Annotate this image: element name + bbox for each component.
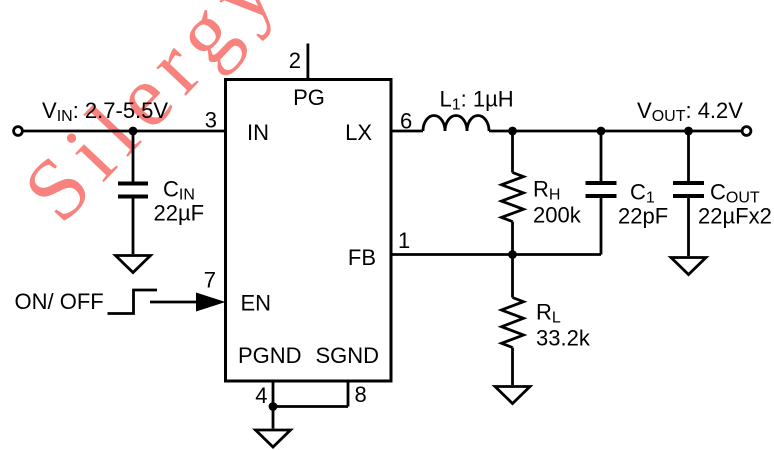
svg-text:22pF: 22pF	[618, 204, 668, 229]
wire: RH to FB node	[511, 222, 514, 255]
wire: FB pin to C1 bottom	[391, 253, 601, 256]
svg-text:IN: IN	[247, 120, 269, 145]
wire: EN arrow shaft	[150, 301, 200, 304]
signal: step waveform	[108, 290, 158, 314]
svg-text:SGND: SGND	[316, 343, 380, 368]
wire: input to IN pin	[22, 130, 225, 133]
node: FB junction dot	[508, 250, 517, 259]
wire: C1 bottom leg	[600, 198, 603, 255]
arrowhead into EN	[196, 293, 226, 312]
svg-text:LX: LX	[345, 120, 372, 145]
svg-text:EN: EN	[241, 291, 272, 316]
wire: SGND pin 8 stub	[347, 381, 350, 407]
svg-text:8: 8	[355, 382, 367, 407]
wire: junction to ground	[272, 407, 275, 429]
node: C1 top junction dot	[597, 127, 606, 136]
svg-text:2: 2	[289, 48, 301, 73]
wire: FB node down to RL	[511, 255, 514, 298]
wire: COUT to ground	[687, 198, 690, 256]
node: COUT top junction dot	[684, 127, 693, 136]
wire: PG pin stub	[306, 44, 309, 80]
inductor L1	[423, 115, 489, 131]
svg-text:4: 4	[255, 383, 267, 408]
wire: LX to inductor	[391, 130, 423, 133]
capacitor COUT	[673, 181, 704, 185]
svg-text:200k: 200k	[533, 203, 582, 228]
svg-text:ON/ OFF: ON/ OFF	[15, 289, 104, 314]
svg-text:3: 3	[205, 108, 217, 133]
ground (RL)	[495, 387, 530, 404]
wire: C1 top leg	[600, 131, 603, 181]
input terminal circle	[14, 127, 23, 136]
resistor RH	[502, 173, 524, 222]
svg-text:33.2k: 33.2k	[536, 326, 591, 351]
svg-text:22µFx2: 22µFx2	[698, 204, 772, 229]
capacitor CIN	[118, 182, 148, 186]
svg-text:PGND: PGND	[238, 343, 302, 368]
node: LX/RH junction dot	[508, 127, 517, 136]
svg-text:L1: 1µH: L1: 1µH	[440, 87, 514, 114]
wire: node to RH	[511, 131, 514, 173]
op-amp U1 : regulator IC body	[226, 80, 392, 382]
ground (COUT)	[671, 258, 706, 275]
svg-text:FB: FB	[348, 245, 376, 270]
wire: PGND pin 4 stub	[272, 381, 275, 407]
wire: pin4 to pin8	[273, 405, 348, 408]
wire: inductor to VOUT terminal	[489, 130, 742, 133]
svg-text:1: 1	[398, 228, 410, 253]
output terminal circle	[742, 127, 751, 136]
wire: VIN node down to CIN	[132, 131, 135, 182]
svg-text:22µF: 22µF	[154, 201, 205, 226]
capacitor C1	[586, 181, 617, 185]
node: PGND junction dot	[269, 402, 278, 411]
resistor RL	[502, 298, 524, 348]
wire: CIN to ground	[132, 199, 135, 255]
svg-text:PG: PG	[293, 85, 325, 110]
svg-text:7: 7	[204, 268, 216, 293]
node: VIN junction dot	[129, 127, 138, 136]
ground (PGND/SGND)	[256, 430, 291, 447]
wire: RL to ground	[511, 348, 514, 386]
ground (CIN)	[116, 256, 151, 273]
wire: COUT top leg	[687, 131, 690, 181]
